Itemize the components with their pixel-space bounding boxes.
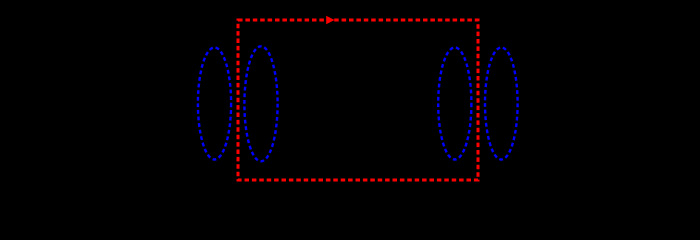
flux loop (red dashed rectangle) [238, 20, 478, 180]
coil turn L1 (blue dashed ellipse, outer left) [198, 48, 231, 160]
coil turn R2 (blue dashed ellipse, outer right) [485, 48, 518, 160]
direction arrowhead on top edge of loop [326, 16, 334, 25]
coil turn L2 (blue dashed ellipse, inner left) [244, 46, 277, 161]
coil turn R1 (blue dashed ellipse, inner right) [438, 48, 471, 160]
